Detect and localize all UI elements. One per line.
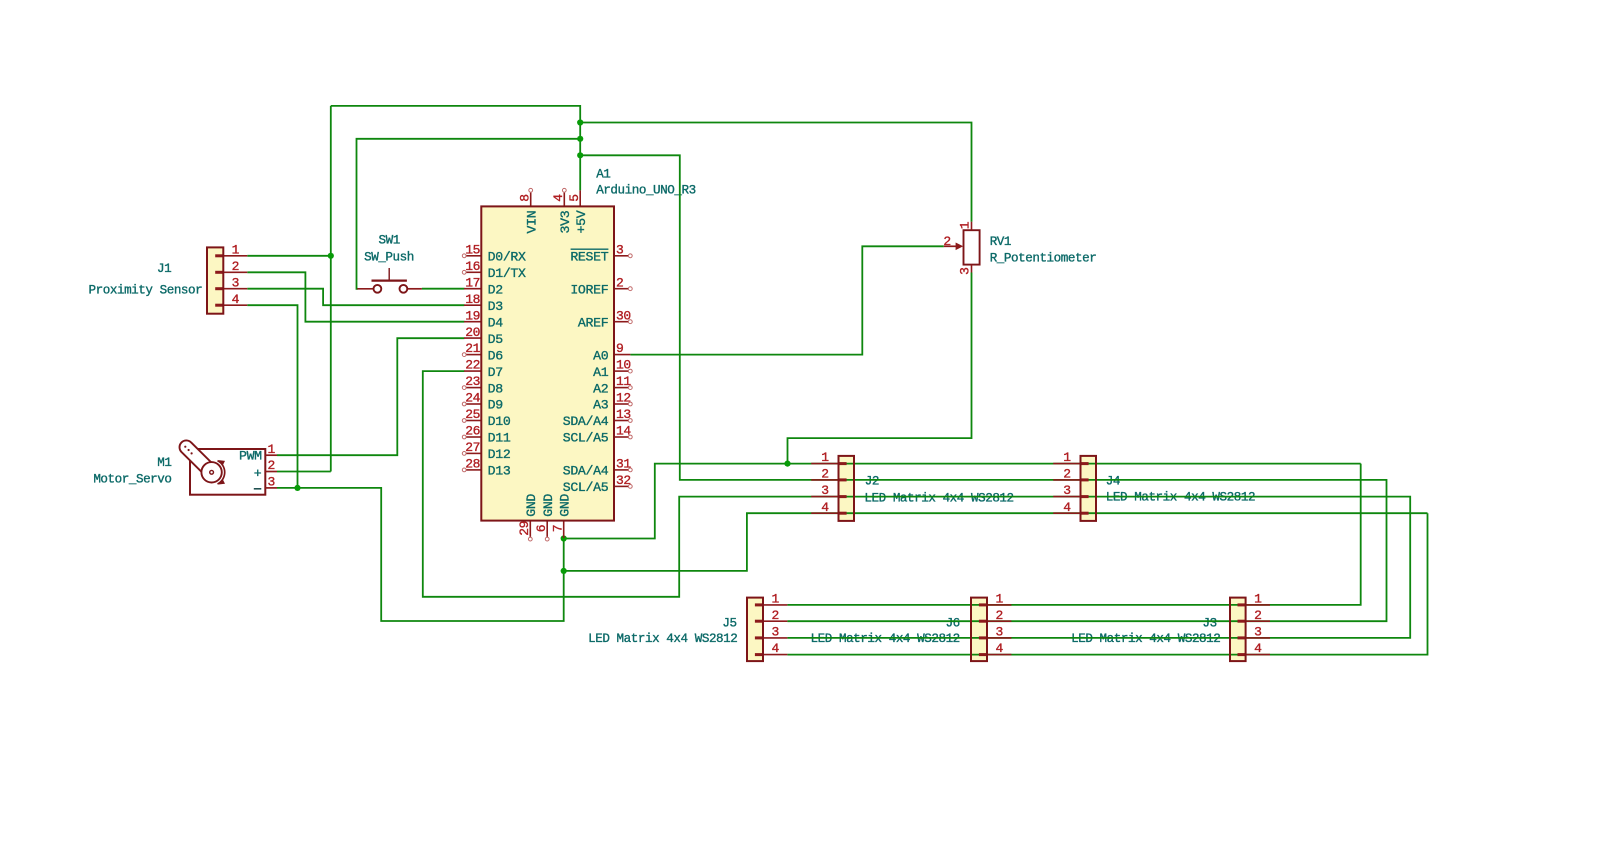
connector J4 body fill <box>1081 456 1097 521</box>
servo motor M1 <box>180 440 277 494</box>
svg-text:3: 3 <box>958 268 973 275</box>
wire D7 row3 to J4 pin3 and J5 pin3 loop <box>787 497 1410 638</box>
connector J5 body fill <box>747 598 763 662</box>
svg-text:27: 27 <box>465 440 480 455</box>
svg-text:21: 21 <box>465 341 480 356</box>
svg-text:D5: D5 <box>488 332 504 347</box>
svg-text:Proximity Sensor: Proximity Sensor <box>89 283 203 297</box>
svg-text:2: 2 <box>996 608 1003 623</box>
svg-text:D11: D11 <box>488 431 511 446</box>
svg-text:1: 1 <box>1254 592 1262 607</box>
svg-text:A0: A0 <box>593 348 609 363</box>
svg-text:4: 4 <box>821 500 829 515</box>
connector J2 pin numbers 1-4 <box>821 450 829 515</box>
svg-text:A1: A1 <box>596 168 610 182</box>
wire M1 pin3 stub wire <box>277 487 298 489</box>
svg-text:SCL/A5: SCL/A5 <box>563 480 609 495</box>
svg-text:3: 3 <box>772 625 779 640</box>
svg-text:Arduino_UNO_R3: Arduino_UNO_R3 <box>596 184 696 198</box>
wire A0 to RV1 pin2 <box>630 246 943 354</box>
connector J1 pin numbers 1-4 <box>232 242 240 306</box>
wire +5V to J2 pin2 <box>580 155 838 480</box>
svg-text:17: 17 <box>465 275 480 290</box>
Arduino A1 outline <box>481 206 614 520</box>
svg-text:IOREF: IOREF <box>570 282 608 297</box>
label A1 Arduino_UNO_R3 <box>596 168 696 198</box>
svg-text:32: 32 <box>616 473 631 488</box>
svg-text:2: 2 <box>1063 467 1070 482</box>
Arduino top pin numbers 8 4 5 <box>518 194 583 202</box>
junction at 580,155 <box>577 152 583 158</box>
svg-text:4: 4 <box>1063 500 1071 515</box>
junction at 564,571 <box>561 568 567 574</box>
svg-text:RESET: RESET <box>570 250 608 265</box>
svg-text:3: 3 <box>268 475 275 490</box>
svg-text:10: 10 <box>616 358 631 373</box>
label SW1 SW_Push <box>364 234 414 265</box>
Arduino bottom pin stubs GND <box>528 521 563 541</box>
connector J5 pin bars <box>755 603 763 656</box>
svg-text:D12: D12 <box>488 447 511 462</box>
connector J2 outline <box>839 456 855 521</box>
wire D7 to J2 pin3 <box>423 371 839 597</box>
svg-text:1: 1 <box>268 442 276 457</box>
svg-text:D9: D9 <box>488 398 503 413</box>
wire M1 pin2 to +5V drop <box>277 471 331 473</box>
potentiometer RV1 <box>944 222 980 273</box>
connector J2 pin bars <box>839 462 847 515</box>
svg-text:1: 1 <box>958 221 973 229</box>
connector J4 pin bars <box>1081 462 1089 515</box>
svg-text:1: 1 <box>996 592 1004 607</box>
svg-text:3: 3 <box>821 483 828 498</box>
svg-text:A1: A1 <box>593 365 609 380</box>
RV1 pin numbers 1 2 3 <box>943 221 972 275</box>
svg-text:SCL/A5: SCL/A5 <box>563 431 609 446</box>
svg-text:GND: GND <box>524 494 539 517</box>
svg-text:12: 12 <box>616 391 631 406</box>
svg-text:LED Matrix 4x4 WS2812: LED Matrix 4x4 WS2812 <box>864 491 1013 505</box>
svg-text:4: 4 <box>1254 641 1262 656</box>
svg-text:LED Matrix 4x4 WS2812: LED Matrix 4x4 WS2812 <box>588 632 737 646</box>
junction at 564,538 <box>561 535 567 541</box>
svg-text:D0/RX: D0/RX <box>488 250 526 265</box>
wire D5 to M1 PWM <box>277 338 464 455</box>
svg-text:VIN: VIN <box>525 211 540 234</box>
connector J5 outline <box>747 598 763 662</box>
Arduino right pin numbers <box>616 242 631 488</box>
connector J4 pin numbers 1-4 <box>1063 450 1071 515</box>
svg-text:1: 1 <box>772 592 780 607</box>
connector J5 pin stubs <box>763 605 787 655</box>
svg-text:M1: M1 <box>157 456 171 470</box>
svg-text:J3: J3 <box>1202 616 1216 630</box>
label J4 LED Matrix 4x4 WS2812 <box>1106 475 1255 505</box>
svg-text:SDA/A4: SDA/A4 <box>563 414 609 429</box>
svg-text:4: 4 <box>551 194 566 202</box>
svg-text:2: 2 <box>616 275 623 290</box>
svg-text:D8: D8 <box>488 381 504 396</box>
wire GND from pin7 to J2 pin1 row <box>564 464 1361 539</box>
svg-text:4: 4 <box>772 641 780 656</box>
connector J6 outline <box>971 598 987 662</box>
connector J3 pin stubs <box>1246 605 1270 655</box>
svg-text:7: 7 <box>551 525 566 532</box>
svg-text:22: 22 <box>465 358 480 373</box>
svg-text:24: 24 <box>465 391 480 406</box>
svg-text:D1/TX: D1/TX <box>488 266 526 281</box>
svg-text:13: 13 <box>616 407 631 422</box>
Arduino bottom pin names GND <box>524 494 572 517</box>
svg-text:D3: D3 <box>488 299 504 314</box>
M1 pin names PWM + - <box>239 449 262 489</box>
svg-text:31: 31 <box>616 457 631 472</box>
svg-text:J4: J4 <box>1106 475 1120 489</box>
wire +5V to SW1 <box>357 139 581 289</box>
svg-text:SW_Push: SW_Push <box>364 251 414 265</box>
wire GND branch to RV1 pin3 <box>788 273 972 464</box>
wire GND row1 loop to J5 pin1 <box>787 464 1360 605</box>
label J1 Proximity Sensor <box>89 262 203 297</box>
wire +5V row to J4 pin2 and J5 pin2 loop <box>787 480 1386 621</box>
wire J1 pin1 to +5V drop <box>247 255 330 257</box>
wire +5V top bus <box>331 106 580 190</box>
svg-text:3: 3 <box>616 242 623 257</box>
svg-text:J1: J1 <box>157 262 171 276</box>
wire GND to J2 pin4 row <box>564 513 1428 571</box>
svg-text:28: 28 <box>465 457 480 472</box>
svg-text:GND: GND <box>541 494 556 517</box>
svg-text:30: 30 <box>616 308 631 323</box>
wire +5V to RV1 pin1 <box>580 123 971 222</box>
connector J4 pin stubs <box>1053 464 1080 514</box>
svg-text:GND: GND <box>558 494 573 517</box>
svg-text:A3: A3 <box>593 398 609 413</box>
Arduino top pin stubs VIN 3V3 +5V <box>529 188 580 206</box>
wire J1 pin2 to D4 <box>247 272 464 321</box>
connector J6 pin numbers 1-4 <box>996 592 1004 657</box>
connector J2 body fill <box>839 456 855 521</box>
junction at 298,488 <box>294 485 300 491</box>
svg-text:11: 11 <box>616 374 631 389</box>
svg-text:D10: D10 <box>488 414 511 429</box>
svg-text:15: 15 <box>465 242 480 257</box>
svg-text:D6: D6 <box>488 348 504 363</box>
svg-text:J5: J5 <box>722 616 736 630</box>
svg-text:SW1: SW1 <box>379 234 400 248</box>
svg-text:3V3: 3V3 <box>558 210 573 233</box>
svg-text:4: 4 <box>232 292 240 307</box>
svg-text:J6: J6 <box>946 616 960 630</box>
wire J1 pin4 to GND <box>247 305 297 488</box>
svg-text:20: 20 <box>465 325 480 340</box>
svg-text:R_Potentiometer: R_Potentiometer <box>990 252 1097 266</box>
label J6 LED Matrix 4x4 WS2812 <box>811 616 960 646</box>
svg-text:D7: D7 <box>488 365 503 380</box>
label J5 LED Matrix 4x4 WS2812 <box>588 616 737 646</box>
svg-text:5: 5 <box>567 194 582 201</box>
wire GND row4 loop to J5 pin4 <box>787 513 1427 654</box>
connector J6 body fill <box>971 598 987 662</box>
svg-text:D4: D4 <box>488 315 504 330</box>
svg-text:2: 2 <box>1254 608 1261 623</box>
svg-text:AREF: AREF <box>578 315 608 330</box>
Arduino left pin numbers 15-28 <box>465 242 480 471</box>
connector J3 body fill <box>1230 598 1246 662</box>
svg-text:29: 29 <box>517 521 532 536</box>
svg-text:19: 19 <box>465 308 480 323</box>
svg-text:RV1: RV1 <box>990 235 1011 249</box>
wire SW1 to D2 <box>422 288 465 290</box>
svg-text:2: 2 <box>943 234 950 249</box>
svg-text:3: 3 <box>232 275 239 290</box>
Arduino A1 body fill <box>481 206 614 520</box>
connector J1 pin bars <box>215 254 223 306</box>
svg-text:3: 3 <box>1254 625 1261 640</box>
connector J6 pin bars <box>979 603 987 656</box>
svg-text:2: 2 <box>772 608 779 623</box>
svg-text:D2: D2 <box>488 282 503 297</box>
svg-text:18: 18 <box>465 292 480 307</box>
Arduino right pin stubs <box>614 254 632 488</box>
svg-text:Motor_Servo: Motor_Servo <box>93 472 171 486</box>
M1 pin numbers 1 2 3 <box>268 442 276 490</box>
svg-text:8: 8 <box>518 194 533 201</box>
junction at 580,139 <box>577 136 583 142</box>
Arduino left pin names D0-D13 <box>488 250 526 479</box>
Arduino right pin names <box>563 249 609 495</box>
svg-text:3: 3 <box>1063 483 1070 498</box>
svg-text:26: 26 <box>465 424 480 439</box>
svg-text:J2: J2 <box>865 475 879 489</box>
junction at 580,122 <box>577 119 583 125</box>
wire J1 pin3 to D3 <box>247 289 464 306</box>
svg-text:SDA/A4: SDA/A4 <box>563 464 609 479</box>
connector J6 pin stubs <box>987 605 1011 655</box>
svg-text:PWM: PWM <box>239 449 262 464</box>
wire GND to M1 pin3 <box>298 488 564 621</box>
svg-text:1: 1 <box>1063 450 1071 465</box>
svg-text:+: + <box>254 466 262 481</box>
label M1 Motor_Servo <box>93 456 171 486</box>
Arduino bottom pin numbers 29 6 7 <box>517 521 565 536</box>
connector J2 pin stubs <box>811 464 838 514</box>
Arduino top pin names VIN 3V3 +5V <box>525 210 590 233</box>
svg-text:1: 1 <box>821 450 829 465</box>
svg-text:4: 4 <box>996 641 1004 656</box>
svg-text:14: 14 <box>616 424 631 439</box>
wire GND vertical pin7 down <box>563 539 565 571</box>
svg-text:2: 2 <box>268 458 275 473</box>
connector J1 pin stubs <box>223 256 247 305</box>
svg-text:+5V: +5V <box>574 210 589 233</box>
junction at 331,256 <box>328 253 334 259</box>
junction at 788,464 <box>784 461 790 467</box>
label RV1 R_Potentiometer <box>990 235 1097 266</box>
connector J3 pin numbers 1-4 <box>1254 592 1262 657</box>
svg-text:6: 6 <box>534 525 549 532</box>
connector J5 pin numbers 1-4 <box>772 592 780 657</box>
svg-text:3: 3 <box>996 625 1003 640</box>
svg-text:23: 23 <box>465 374 480 389</box>
Arduino left pin stubs <box>462 254 481 472</box>
servo M1 body fill <box>190 449 265 495</box>
connector J4 outline <box>1081 456 1097 521</box>
push button SW1 <box>357 268 422 293</box>
svg-text:1: 1 <box>232 242 240 257</box>
connector J3 outline <box>1230 598 1246 662</box>
svg-text:9: 9 <box>616 341 623 356</box>
label J3 LED Matrix 4x4 WS2812 <box>1071 616 1220 646</box>
svg-text:D13: D13 <box>488 464 511 479</box>
svg-text:A2: A2 <box>593 381 608 396</box>
svg-text:2: 2 <box>232 259 239 274</box>
svg-text:16: 16 <box>465 259 480 274</box>
connector J1 outline <box>207 247 223 313</box>
wire +5V drop to J1.1 / M1.2 <box>330 106 332 472</box>
connector J3 pin bars <box>1238 603 1246 656</box>
svg-text:25: 25 <box>465 407 480 422</box>
label J2 LED Matrix 4x4 WS2812 <box>864 475 1013 506</box>
svg-text:2: 2 <box>821 467 828 482</box>
connector J1 body fill <box>207 247 223 313</box>
